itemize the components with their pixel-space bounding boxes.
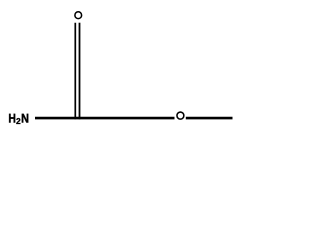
wire: C=O double bond left line [74, 23, 76, 120]
svg-text:H: H [8, 111, 15, 125]
wire: bond O-CH3 right horizontal [186, 117, 233, 120]
svg-text:N: N [21, 111, 29, 125]
svg-text:2: 2 [16, 116, 21, 126]
wire: bond N-C main horizontal [35, 117, 175, 120]
node: atom label O (carbonyl oxygen, top) [75, 12, 82, 19]
node: atom label O (ester oxygen, right) [177, 112, 184, 119]
wire: C=O double bond right line [79, 23, 81, 120]
